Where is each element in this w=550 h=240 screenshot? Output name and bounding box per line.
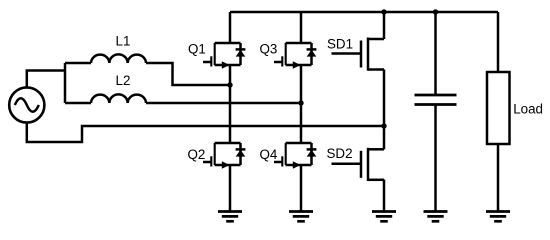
wire: Q3 source / node B / Q4 drain leg (300, 65, 303, 143)
wire: Q1 drain to bus (229, 12, 232, 43)
node B (298, 100, 303, 105)
wire: Q3 drain to bus (300, 12, 303, 43)
svg-text:L2: L2 (116, 73, 131, 88)
svg-text:L1: L1 (116, 34, 131, 49)
inductor L1 (91, 54, 146, 63)
transistor Q1 (203, 43, 245, 69)
wire: SD1 source to node C (383, 70, 386, 127)
ac source V1 (9, 87, 44, 122)
load resistor (487, 72, 510, 144)
transistor Q4 (274, 143, 316, 169)
wire: input rail between L1 and L2 (64, 63, 67, 103)
node A (227, 82, 232, 87)
wire: L1 left lead (65, 62, 91, 65)
transistor SD2 (332, 148, 385, 181)
inductor L2 (91, 94, 146, 103)
wire: capacitor bottom lead to ground (434, 105, 437, 212)
wire: SD1 drain to bus (383, 12, 386, 39)
wire: L2 left lead (65, 102, 91, 105)
ground: under capacitor (424, 212, 448, 222)
capacitor C1 (415, 95, 457, 105)
svg-text:SD1: SD1 (327, 37, 353, 52)
wire: load bottom lead to ground (497, 144, 500, 212)
wire: Q4 source to ground (300, 165, 303, 212)
svg-text:Q1: Q1 (188, 42, 206, 57)
wire: SD2 source to ground (383, 180, 386, 212)
wire: Q2 source to ground (229, 165, 232, 212)
node: bus / capacitor junction (433, 9, 438, 14)
svg-text:Load: Load (513, 102, 543, 117)
ground: under Q4 (289, 212, 313, 222)
wire: Q1 source / node A / Q2 drain leg (229, 65, 232, 143)
svg-text:Q3: Q3 (260, 42, 278, 57)
wire: L1 output to node A (146, 63, 230, 85)
wire: ac source top lead to input rail (27, 71, 65, 88)
wire: positive dc bus (230, 11, 498, 14)
transistor SD1 (332, 38, 385, 71)
node: bus / SD1 drain junction (381, 9, 386, 14)
transistor Q3 (274, 43, 316, 69)
ground: under SD2 (372, 212, 396, 222)
wire: load top lead (497, 12, 500, 72)
wire: ac source bottom lead to SD leg (27, 123, 384, 142)
ground: under Q2 (218, 212, 242, 222)
svg-text:Q4: Q4 (260, 147, 278, 162)
svg-text:SD2: SD2 (327, 146, 353, 161)
wire: SD2 drain from node C (383, 126, 386, 149)
wire: capacitor top lead (434, 12, 437, 95)
wire: L2 output to node B (146, 102, 301, 105)
node C (ac return / SD1 / SD2 junction) (381, 123, 386, 128)
ground: under load (486, 212, 510, 222)
svg-text:Q2: Q2 (188, 147, 206, 162)
transistor Q2 (203, 143, 245, 169)
